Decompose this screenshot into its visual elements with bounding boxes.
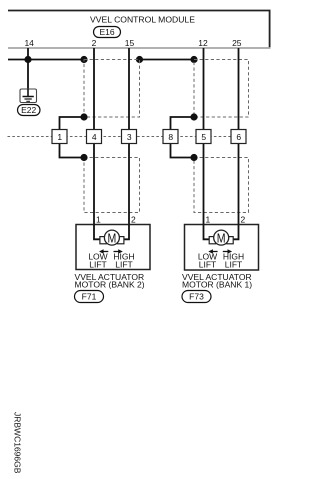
motor bank1 high-lift arrow bbox=[223, 249, 232, 253]
motor bank2 symbol bbox=[100, 230, 124, 245]
VVEL actuator motor bank1 box bbox=[185, 225, 259, 271]
junction dot shield A bottom-left upper bbox=[80, 113, 87, 120]
junction dot shield A2 top-left bbox=[80, 154, 87, 161]
mask shield B left edge gap bbox=[193, 119, 195, 157]
motor bank2 caption bbox=[75, 272, 145, 290]
motor bank1 low-lift arrow bbox=[208, 249, 217, 253]
svg-text:14: 14 bbox=[24, 38, 34, 48]
junction dot shield A top-left bbox=[80, 56, 87, 63]
svg-text:2: 2 bbox=[131, 214, 136, 224]
ground label E22 bbox=[18, 105, 41, 116]
wire pin12 to motor bbox=[203, 48, 205, 225]
shield box A1 (dashed, pins 2/15 upper) bbox=[84, 60, 140, 118]
motor bank2 low-lift arrow bbox=[99, 249, 108, 253]
junction dot pin14/bus bbox=[24, 56, 31, 63]
terminal box 1 bbox=[52, 130, 67, 144]
svg-text:MOTOR (BANK 1): MOTOR (BANK 1) bbox=[182, 280, 252, 290]
VVEL actuator motor bank2 box bbox=[76, 225, 150, 270]
svg-text:JRBWC1696GB: JRBWC1696GB bbox=[13, 412, 23, 474]
svg-text:2: 2 bbox=[92, 38, 97, 48]
wire ground bus left bbox=[8, 59, 84, 61]
wire shield A through terminal 1 bbox=[60, 117, 85, 158]
wire pin25 to motor bbox=[238, 48, 240, 225]
svg-text:5: 5 bbox=[201, 132, 206, 142]
svg-text:E16: E16 bbox=[99, 27, 114, 37]
wire pin2 to motor bbox=[93, 48, 95, 225]
wire pin15 to motor bbox=[128, 48, 130, 225]
junction dot shield B2 top-left bbox=[190, 154, 197, 161]
motor bank1 lead wires bbox=[204, 225, 239, 240]
ground E22 symbol bbox=[20, 89, 37, 103]
motor bank1 symbol bbox=[209, 230, 233, 245]
mask shield A left edge gap bbox=[83, 119, 85, 157]
svg-text:8: 8 bbox=[168, 132, 173, 142]
motor bank2 LOW HIGH LIFT labels bbox=[88, 252, 134, 270]
svg-text:1: 1 bbox=[57, 132, 62, 142]
terminal box 6 bbox=[231, 130, 246, 144]
svg-text:6: 6 bbox=[236, 132, 241, 142]
svg-text:1: 1 bbox=[206, 214, 211, 224]
svg-text:VVEL CONTROL MODULE: VVEL CONTROL MODULE bbox=[90, 15, 195, 25]
terminal box 3 bbox=[122, 130, 137, 144]
terminal box 4 bbox=[87, 130, 102, 144]
svg-text:1: 1 bbox=[96, 214, 101, 224]
svg-text:LIFT: LIFT bbox=[225, 260, 242, 270]
svg-text:LIFT: LIFT bbox=[199, 260, 216, 270]
shield box B1 (dashed, pins 12/25 upper) bbox=[194, 60, 249, 118]
svg-text:MOTOR (BANK 2): MOTOR (BANK 2) bbox=[75, 280, 145, 290]
svg-text:3: 3 bbox=[127, 132, 132, 142]
shield box A2 (dashed, bank2 lower) bbox=[84, 158, 140, 213]
terminal box 8 bbox=[163, 130, 178, 144]
motor bank1 LOW HIGH LIFT labels bbox=[198, 252, 244, 270]
wire ground bus middle bbox=[140, 59, 195, 61]
svg-text:LIFT: LIFT bbox=[89, 260, 106, 270]
junction dot shield A top-right bbox=[136, 56, 143, 63]
svg-text:M: M bbox=[108, 231, 117, 245]
svg-text:2: 2 bbox=[241, 214, 246, 224]
junction dot shield B bottom-left upper bbox=[190, 113, 197, 120]
shield box B2 (dashed, bank1 lower) bbox=[194, 158, 249, 213]
motor bank2 lead wires bbox=[94, 225, 129, 240]
svg-text:25: 25 bbox=[232, 38, 242, 48]
connector label E16 bbox=[94, 27, 121, 38]
terminal box 5 bbox=[196, 130, 211, 144]
svg-text:LIFT: LIFT bbox=[115, 260, 132, 270]
svg-text:E22: E22 bbox=[21, 105, 36, 115]
svg-text:4: 4 bbox=[92, 132, 97, 142]
VVEL control module box E16 bbox=[8, 11, 271, 49]
svg-text:M: M bbox=[217, 231, 226, 245]
wire pin14 to ground bus bbox=[27, 48, 29, 90]
svg-text:F73: F73 bbox=[189, 292, 204, 302]
svg-text:15: 15 bbox=[125, 38, 135, 48]
svg-text:12: 12 bbox=[198, 38, 208, 48]
svg-text:F71: F71 bbox=[82, 292, 97, 302]
connector row dashed line bbox=[8, 136, 247, 138]
motor bank1 caption bbox=[182, 272, 252, 290]
junction dot shield B top-left bbox=[190, 56, 197, 63]
wire shield B through terminal 8 bbox=[171, 117, 195, 158]
connector label F71 bbox=[75, 291, 104, 303]
connector label F73 bbox=[182, 291, 211, 303]
motor bank2 high-lift arrow bbox=[114, 249, 123, 253]
